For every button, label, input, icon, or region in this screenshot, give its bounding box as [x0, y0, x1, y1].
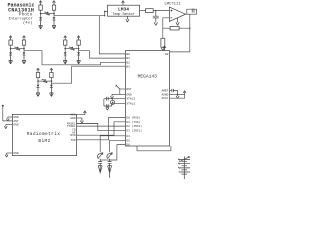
wire D2 to BiM2 TXSEL	[77, 125, 126, 127]
op-amp V- ground	[176, 18, 179, 26]
junction dot	[155, 10, 156, 11]
capacitor C1	[153, 11, 159, 18]
feedback resistor R6	[163, 27, 190, 29]
capacitor C5	[172, 89, 174, 92]
junction PI1/LM34	[104, 15, 105, 16]
svg-text:GND: GND	[13, 116, 18, 119]
ground AGND	[176, 94, 179, 98]
wire LM34 left pin	[105, 11, 108, 15]
wire PI1 output to node	[54, 15, 105, 17]
svg-text:GND: GND	[126, 93, 131, 96]
wire D1 to BiM2 RXD	[77, 122, 126, 135]
svg-text:D5: D5	[126, 139, 130, 142]
svg-text:GND: GND	[70, 117, 75, 120]
reset switch S1	[120, 88, 126, 90]
wire PI3 output to B1	[79, 51, 126, 58]
svg-text:ANT: ANT	[13, 120, 18, 123]
photo interruptor PI3	[63, 36, 80, 64]
wire D0 to BiM2 TXD	[77, 117, 126, 139]
svg-text:D4: D4	[126, 135, 130, 138]
svg-text:D6: D6	[126, 144, 130, 147]
svg-text:AREF: AREF	[161, 90, 168, 93]
svg-text:XTAL1: XTAL1	[126, 102, 135, 105]
svg-text:A0: A0	[165, 53, 169, 56]
svg-text:B3: B3	[126, 65, 130, 68]
svg-text:D3 (INT1): D3 (INT1)	[126, 129, 142, 133]
wire node down to B0	[99, 16, 125, 54]
VCC arrow BiM2	[84, 111, 87, 113]
svg-text:D2 (INT0): D2 (INT0)	[126, 124, 142, 128]
svg-text:BiM2: BiM2	[38, 138, 50, 144]
wire D6	[110, 145, 126, 160]
svg-text:RST: RST	[126, 88, 131, 91]
wire BiM2 VCC	[77, 112, 85, 115]
svg-text:D1 (TXD): D1 (TXD)	[126, 120, 140, 124]
ground MEGA	[111, 94, 114, 98]
svg-text:LM34: LM34	[118, 6, 129, 12]
pin labels left	[126, 53, 142, 147]
VCC arrow MEGA	[163, 46, 166, 51]
resistor R5 input	[146, 9, 154, 13]
title text	[7, 2, 34, 13]
pin labels BiM2 left	[13, 116, 18, 155]
svg-text:B0: B0	[126, 53, 130, 56]
svg-text:LMC7111: LMC7111	[164, 3, 181, 7]
wire minus input feedback	[163, 18, 170, 39]
svg-text:D0 (RXD): D0 (RXD)	[126, 115, 140, 119]
wire PI2 output to B2	[24, 51, 125, 65]
capacitor C3	[107, 97, 109, 101]
wire BiM2 GND3	[7, 152, 13, 154]
wire BiM2 GND2	[6, 124, 13, 126]
wire output	[186, 13, 197, 15]
ground BiM2-3	[5, 153, 8, 157]
wire D3 to BiM2 RXSEL	[77, 123, 126, 130]
ground BiM2-2	[4, 125, 7, 129]
VCC arrow AVCC	[183, 91, 186, 93]
LED2	[107, 153, 112, 178]
ground LED2	[108, 165, 112, 177]
svg-text:XTAL2: XTAL2	[126, 98, 135, 101]
wire D4 to LED1	[100, 136, 125, 153]
BiM2 module U4	[12, 114, 76, 155]
wire AVCC	[170, 92, 185, 99]
ground R7	[161, 47, 164, 50]
photo interruptor PI1	[39, 1, 56, 29]
junction dot	[177, 94, 178, 95]
wire bottom loop	[137, 146, 171, 151]
wire LED1-LED2	[100, 159, 109, 161]
svg-text:MEGA143: MEGA143	[138, 74, 158, 80]
ground LM34	[126, 16, 129, 22]
wire D5 to LED2	[110, 140, 126, 152]
antenna	[2, 105, 4, 107]
ground LED1	[98, 165, 102, 173]
plus input	[171, 10, 173, 12]
wire AREF	[170, 90, 172, 92]
svg-text:GND: GND	[13, 124, 18, 127]
svg-text:Radiometrix: Radiometrix	[27, 131, 61, 137]
svg-text:Temp Sensor: Temp Sensor	[112, 12, 134, 17]
wire output down to A0	[170, 14, 190, 52]
ground BiM2 right	[80, 118, 83, 123]
capacitor C4	[107, 104, 109, 108]
pin labels BiM2 right	[67, 114, 76, 142]
LM34 temp sensor U2	[108, 5, 140, 16]
VCC arrow LM34	[122, 1, 125, 6]
crystal X1	[111, 100, 115, 104]
wire AGND	[170, 93, 185, 95]
minus input	[170, 17, 172, 19]
svg-text:GND: GND	[13, 152, 18, 155]
photo interruptor PI2	[9, 36, 26, 64]
wire BiM2 RXSEL	[77, 122, 98, 124]
wire crystal left rail	[103, 99, 105, 106]
battery BT1	[178, 156, 190, 179]
wire to op-amp	[153, 10, 169, 12]
wire BiM2 GND pin	[77, 117, 82, 119]
svg-text:TXD: TXD	[70, 139, 75, 142]
resistor R7 to ground	[161, 38, 165, 47]
ground BiM2-1	[6, 117, 9, 121]
wire XTAL2	[104, 98, 126, 100]
photo interruptor PI4	[36, 68, 53, 96]
junction dot	[104, 11, 106, 13]
wire BiM2 GND1	[8, 116, 13, 118]
feedback cap C2 loop	[187, 9, 197, 14]
junction dot feedback	[189, 28, 190, 29]
wire GND pin	[112, 93, 125, 95]
wire C5 to AGND	[173, 91, 177, 95]
wire LM34 out	[140, 10, 146, 12]
capacitor C2 plates	[192, 9, 194, 13]
svg-text:B2: B2	[126, 61, 130, 64]
MEGA143 U1	[125, 51, 169, 146]
svg-text:CNA1301H: CNA1301H	[8, 7, 34, 13]
ground C1	[154, 18, 157, 26]
svg-text:(4x): (4x)	[23, 21, 33, 26]
wire XTAL1	[104, 103, 126, 106]
ground crystal	[106, 106, 109, 110]
op-amp U3	[169, 7, 185, 22]
svg-text:AGND: AGND	[161, 93, 168, 96]
svg-text:B1: B1	[126, 57, 130, 60]
LED1	[97, 153, 102, 174]
svg-text:AVCC: AVCC	[161, 97, 168, 100]
pin labels right	[161, 53, 168, 100]
svg-text:RXD: RXD	[70, 134, 75, 137]
wire PI4 output to B3	[51, 66, 125, 83]
